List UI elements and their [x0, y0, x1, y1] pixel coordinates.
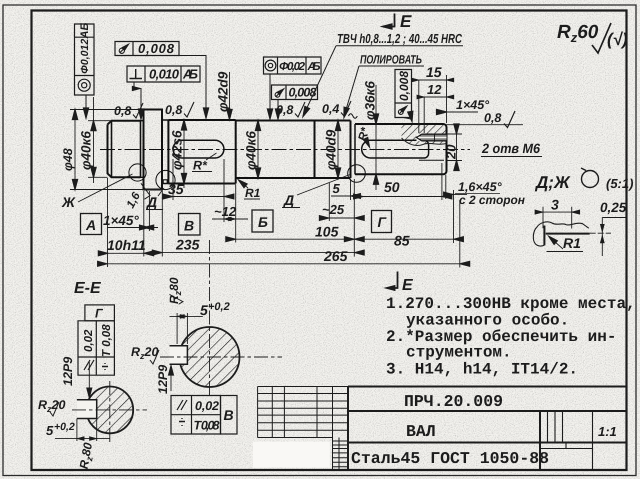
- svg-text:φ40d9: φ40d9: [324, 129, 339, 170]
- keyway slot 50 in Ф36к6: [362, 140, 429, 158]
- svg-text:φ36к6: φ36к6: [363, 81, 378, 120]
- svg-text:Rz60: Rz60: [557, 22, 599, 45]
- roughness Rz60 top right: [557, 22, 628, 53]
- svg-text:Б: Б: [258, 214, 268, 230]
- svg-text:А: А: [85, 217, 96, 233]
- dim 15 hole depth: [412, 64, 454, 133]
- svg-text:E: E: [402, 277, 414, 294]
- dim Ф36к6: [363, 81, 379, 190]
- tolerance frame F4 (◎ Ф0,02 АБ): [264, 57, 322, 119]
- svg-text:Г: Г: [378, 214, 388, 230]
- shaft section Ф40d9: [315, 121, 351, 179]
- label R* keyway 35: [192, 153, 217, 173]
- chamfer 1x45 right end: [437, 98, 491, 115]
- revision grid: [258, 387, 348, 471]
- chamfer 1x45 left: [103, 213, 158, 230]
- svg-text:указанного особо.: указанного особо.: [406, 312, 569, 330]
- dim ~12: [212, 204, 248, 221]
- svg-text:АБ: АБ: [79, 23, 91, 40]
- heat treat note ТВЧ: [301, 31, 463, 118]
- tolerance frame Г rotated (// 0,02 ÷ Т0,08): [78, 305, 114, 375]
- shaft section Ф40к6 middle: [236, 121, 315, 179]
- tolerance frame F1 vertical (◎ Ф0,012 АБ): [75, 23, 95, 118]
- svg-text:В: В: [184, 218, 194, 234]
- svg-text:12: 12: [427, 82, 442, 97]
- svg-text:Ж: Ж: [61, 194, 76, 210]
- Rz20 small circle: [38, 398, 65, 416]
- roughness 1,6 rotated at groove: [125, 183, 153, 210]
- svg-text:0,02: 0,02: [195, 399, 219, 413]
- svg-text:R*: R*: [193, 159, 208, 173]
- shaft section A Ф40к6 left: [108, 121, 141, 178]
- svg-text:5: 5: [333, 181, 341, 196]
- leader Д shoulder: [282, 175, 350, 209]
- hatched cutaway for M6 holes: [402, 125, 447, 146]
- svg-text:235: 235: [175, 237, 200, 253]
- svg-text:3. Н14, h14, IT14/2.: 3. Н14, h14, IT14/2.: [386, 361, 578, 379]
- svg-text:Т 0,08: Т 0,08: [194, 419, 220, 433]
- svg-text:0,02: 0,02: [83, 329, 95, 352]
- svg-text:1×45°: 1×45°: [103, 213, 139, 228]
- svg-text:(5:1): (5:1): [606, 176, 633, 191]
- dim 5+0,2 small circle: [46, 419, 110, 442]
- roughness 0,8 on Ф40к6 middle: [276, 102, 305, 117]
- svg-text:5: 5: [46, 423, 54, 438]
- dim 20 hole spacing: [444, 124, 463, 171]
- svg-text:15: 15: [426, 64, 442, 80]
- svg-text:с 2 сторон: с 2 сторон: [459, 193, 526, 207]
- dim Ф40к6 middle: [244, 121, 261, 179]
- svg-text:В: В: [224, 407, 234, 423]
- label 2 отв М6: [481, 141, 542, 157]
- svg-text:0,25: 0,25: [600, 200, 627, 215]
- svg-text:φ42s6: φ42s6: [170, 130, 185, 170]
- svg-text:35: 35: [168, 181, 184, 197]
- roughness 0,4 on Ф40d9: [322, 101, 351, 116]
- dim 5 groove: [331, 181, 361, 199]
- svg-text:0,010: 0,010: [149, 67, 180, 82]
- dim 12Р9 big circle: [156, 365, 174, 394]
- svg-text:3: 3: [551, 197, 559, 213]
- Rz20 big circle: [131, 345, 159, 364]
- Rz80 rotated above big circle: [167, 277, 183, 304]
- roughness 0,8 on Ф42s6: [165, 102, 194, 117]
- break squiggle: [349, 114, 358, 119]
- datum box В: [179, 214, 201, 236]
- shaft centerline: [100, 149, 470, 151]
- leader Ж: [61, 174, 133, 210]
- leader R1: [236, 178, 260, 200]
- dim 12Р9 small circle: [61, 357, 92, 398]
- svg-text:1:1: 1:1: [598, 424, 617, 439]
- svg-text:2 отв М6: 2 отв М6: [481, 141, 540, 156]
- svg-text:1.270...300НВ кроме места,: 1.270...300НВ кроме места,: [386, 295, 636, 313]
- detail circle Д at Ф36 shoulder: [348, 165, 366, 183]
- detail circle Д at collar groove: [156, 170, 175, 189]
- dim 105: [226, 224, 464, 242]
- svg-text:0,4: 0,4: [322, 102, 339, 116]
- roughness 0,8 right end: [447, 111, 524, 128]
- svg-text:12Р9: 12Р9: [61, 357, 75, 386]
- label R* keyway 50: [355, 125, 372, 149]
- dim 85: [394, 233, 410, 249]
- svg-text:Д: Д: [146, 194, 157, 210]
- svg-text:Φ0,02: Φ0,02: [279, 61, 306, 73]
- svg-text:E: E: [400, 12, 412, 31]
- svg-text:R1: R1: [245, 186, 261, 200]
- dim Ф40к6 left: [79, 97, 112, 183]
- tolerance frame F3 (⊥ 0,010 АБ): [127, 66, 200, 119]
- roughness 0,8 on Ф40к6 left: [114, 103, 143, 118]
- svg-text:20: 20: [444, 144, 459, 160]
- svg-text:0,8: 0,8: [165, 103, 182, 117]
- hole M6: [417, 134, 447, 142]
- datum box А: [81, 214, 102, 235]
- svg-text:Rz20: Rz20: [131, 345, 158, 361]
- dim 10h11: [98, 237, 154, 256]
- polish note ПОЛИРОВАТЬ: [341, 53, 424, 119]
- tolerance frame F2 (runout 0,008): [115, 41, 209, 118]
- leader Д collar groove: [146, 188, 164, 210]
- svg-text:265: 265: [323, 248, 348, 264]
- svg-text:5: 5: [200, 302, 208, 318]
- dim Ф40d9: [324, 121, 341, 179]
- svg-text:1×45°: 1×45°: [456, 98, 490, 112]
- svg-text:φ48: φ48: [61, 148, 75, 171]
- Rz80 rotated below small circle: [77, 441, 97, 470]
- svg-text:85: 85: [394, 233, 410, 249]
- svg-text:ВАЛ: ВАЛ: [406, 422, 436, 441]
- svg-text:+0,2: +0,2: [208, 301, 230, 313]
- extension lines below shaft: [108, 159, 460, 268]
- dim ~25: [319, 183, 364, 221]
- dim Ф42d9: [216, 71, 233, 119]
- dim Ф48: [61, 110, 162, 190]
- svg-text:АБ: АБ: [307, 61, 321, 73]
- svg-text:ТВЧ h0,8...1,2 ; 40...45 HRC: ТВЧ h0,8...1,2 ; 40...45 HRC: [337, 31, 462, 46]
- title block right sub-grid: [540, 411, 593, 470]
- svg-text:10h11: 10h11: [107, 237, 146, 253]
- svg-text:105: 105: [315, 224, 339, 240]
- tolerance frame В (// 0,02 ÷ Т0,08): [171, 396, 237, 435]
- svg-text:12Р9: 12Р9: [156, 365, 170, 394]
- svg-text:φ40к6: φ40к6: [244, 131, 259, 170]
- svg-text:φ40к6: φ40к6: [79, 131, 94, 170]
- svg-text:Rz20: Rz20: [38, 398, 65, 414]
- svg-text:+0,2: +0,2: [54, 421, 75, 433]
- dim 235: [152, 237, 364, 256]
- section circle E-E small (Ф36): [72, 381, 147, 444]
- detail view of groove (5:1): [533, 197, 626, 257]
- svg-text:0,008: 0,008: [138, 41, 175, 56]
- svg-text:φ42d9: φ42d9: [216, 71, 231, 112]
- dim 265: [98, 248, 470, 266]
- title block main box: [348, 387, 627, 471]
- svg-text:~12: ~12: [214, 204, 237, 219]
- svg-text:АБ: АБ: [182, 67, 198, 82]
- dim 50 keyway: [354, 179, 452, 199]
- shaft section B Ф42s6: [168, 120, 235, 184]
- svg-text:Д: Д: [283, 192, 294, 208]
- svg-text:0,008: 0,008: [397, 71, 411, 101]
- svg-text:0,8: 0,8: [276, 103, 293, 117]
- section mark E top: [382, 12, 412, 31]
- dim 12 thread depth: [417, 82, 454, 99]
- svg-text:E-E: E-E: [74, 280, 102, 297]
- svg-text:Φ0,012: Φ0,012: [79, 39, 91, 74]
- tolerance frame F6 vertical (0,008 runout): [395, 70, 415, 122]
- svg-text:Г: Г: [95, 307, 104, 321]
- relief groove Д: [162, 120, 168, 184]
- svg-text:50: 50: [384, 179, 400, 195]
- collar Ф48: [144, 110, 163, 190]
- detail label Д;Ж (5:1): [534, 168, 633, 192]
- keyway slot 35 in Ф42s6: [173, 140, 224, 158]
- svg-text:1,6×45°: 1,6×45°: [458, 180, 503, 194]
- tolerance frame F5 (runout 0,008): [272, 85, 318, 119]
- chamfer 1,6x45 с 2 сторон: [444, 180, 526, 207]
- step groove 5 at Ф36 shoulder: [354, 124, 356, 174]
- detail circle Ж: [129, 164, 146, 181]
- svg-text:Д;Ж: Д;Ж: [534, 173, 571, 192]
- svg-text:(√): (√): [607, 30, 628, 49]
- svg-text:ПОЛИРОВАТЬ: ПОЛИРОВАТЬ: [360, 53, 422, 67]
- svg-text:Т 0,08: Т 0,08: [101, 324, 113, 357]
- shaft section Ф36к6 right: [355, 124, 447, 174]
- svg-text:~25: ~25: [322, 202, 345, 217]
- datum box Б: [252, 210, 273, 232]
- section mark E bottom: [385, 272, 414, 295]
- dim Ф42s6: [170, 120, 187, 188]
- svg-text:R1: R1: [563, 235, 581, 251]
- svg-text:ПРЧ.20.009: ПРЧ.20.009: [404, 392, 503, 411]
- section circle E-E big (Ф42): [160, 240, 282, 398]
- white patch: [253, 442, 330, 468]
- svg-text:Сталь45 ГОСТ 1050-88: Сталь45 ГОСТ 1050-88: [351, 449, 549, 468]
- datum box Г: [372, 211, 392, 233]
- svg-text:0,8: 0,8: [114, 104, 131, 118]
- svg-text:0,8: 0,8: [484, 111, 501, 125]
- dim 35 keyway: [163, 181, 234, 199]
- dim 5+0,2 big circle: [170, 301, 230, 344]
- svg-text:струментом.: струментом.: [406, 344, 512, 362]
